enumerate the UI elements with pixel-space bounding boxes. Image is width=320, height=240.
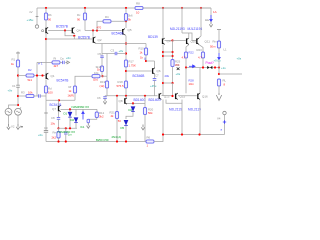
wire Q3 collector down to Q1 (45, 34, 47, 73)
junction x=58.5 y=128.3 (57, 127, 59, 129)
wire column x=117 (116, 96, 118, 112)
junction stub x=126 (125, 140, 127, 142)
junction source top (17, 104, 19, 106)
svg-text:D5: D5 (121, 126, 125, 130)
svg-text:BC557B: BC557B (56, 25, 68, 29)
wire staple link (166, 100, 182, 104)
ground (V1) (16, 124, 19, 129)
transistor Q4 (PNP mirror right) (72, 27, 75, 33)
wire to D2 branch (75, 109, 77, 115)
svg-text:Q1: Q1 (51, 74, 55, 78)
resistor R17 (124, 60, 127, 67)
wire Q7 emitter down (58, 112, 60, 117)
wire source link y=105 (9, 105, 19, 108)
wire corner x=96-97 (96, 109, 98, 112)
emitter circle Q3 (42, 30, 44, 32)
capacitor C5 (101, 56, 103, 57)
wire column x=126 to Q8 (125, 96, 127, 98)
svg-text:C8: C8 (51, 116, 55, 120)
resistor R22 (184, 52, 187, 58)
wire VAS bus y=30.5 (85, 30, 122, 32)
wire R13 bottom (74, 93, 76, 100)
wire R2 row (18, 75, 26, 77)
resistor R18 (124, 81, 127, 88)
junction x=172.5 y=40.5 (171, 39, 173, 41)
svg-text:Q8: Q8 (119, 99, 123, 103)
wire Q6 emitter down (154, 74, 156, 79)
wire x=172.5 to Q15 base (172, 83, 174, 96)
svg-text:BD140G: BD140G (149, 98, 162, 102)
junction Q1 base (41, 74, 43, 76)
svg-text:+15u: +15u (27, 18, 34, 22)
junction stub x=58.5 (57, 140, 59, 142)
resistor R3 (26, 94, 34, 97)
resistor R6 (146, 140, 154, 143)
wire row y=21.3 (97, 21, 126, 30)
junction x=172.5 y=52 (171, 51, 173, 53)
transistor Q16 (197, 93, 200, 99)
capacitor C9 polarity mark (44, 112, 48, 114)
wire to Q5 collector (125, 21, 127, 29)
junction x=117 (116, 95, 118, 97)
wire stub rail to corner x=163 (154, 135, 163, 142)
svg-text:+1s: +1s (221, 66, 226, 70)
junction x=163 y=52 (162, 51, 164, 53)
junction x=203 y=67.5 (202, 66, 204, 68)
current arrow (output) (218, 53, 220, 60)
junction top rail x=163 (162, 7, 164, 9)
svg-text:C1: C1 (12, 84, 16, 88)
capacitor C6 (104, 97, 106, 98)
svg-text:C9: C9 (44, 126, 48, 130)
junction stub x=117 (116, 140, 118, 142)
wire top rail left drop to supply terminal (36, 8, 38, 25)
svg-text:Re: Re (53, 131, 57, 135)
svg-text:+0s: +0s (38, 133, 43, 137)
svg-text:▸ 1: ▸ 1 (39, 61, 43, 65)
resistor R14 (92, 75, 100, 78)
wire Q11 emitter (199, 45, 203, 52)
resistor R8 (series in rail) (135, 6, 143, 9)
transistor Q2 (93, 37, 96, 43)
svg-text:Q4: Q4 (77, 29, 81, 33)
svg-text:575.5: 575.5 (117, 84, 124, 88)
svg-text:(1k): (1k) (100, 84, 105, 88)
input arrowhead (65, 61, 69, 64)
wire C5 lead (101, 44, 103, 57)
junction x=18 y=75.5 (17, 74, 19, 76)
svg-text:Ib1: Ib1 (81, 125, 85, 129)
junction bus x=93 (92, 29, 94, 31)
junction rail x=182 (181, 133, 183, 135)
svg-text:C6: C6 (97, 96, 101, 100)
svg-text:5k1: 5k1 (28, 78, 33, 82)
wire y=43.5 to R10 (126, 43, 146, 45)
transistor Q8 (bias servo) (124, 98, 127, 104)
svg-text:10k: 10k (94, 71, 99, 75)
svg-text:10u: 10u (51, 122, 56, 126)
junction x=133 y=103.4 (132, 102, 134, 104)
plus mark V4 (223, 120, 226, 123)
svg-text:Q2: Q2 (98, 38, 102, 42)
wire R3 row (18, 95, 26, 97)
wire y=74 right (219, 73, 242, 75)
junction jog (73, 35, 75, 37)
svg-text:R2: R2 (28, 68, 32, 72)
svg-text:4.7: 4.7 (198, 56, 202, 60)
wire input row y=62.4 (37, 61, 52, 63)
junction y=76.2 (101, 75, 103, 77)
current arrow on output wire (189, 65, 195, 68)
wire x=154.5 to base row (154, 80, 156, 96)
junction x=126 y=71 (125, 70, 127, 72)
svg-text:Rb: Rb (48, 13, 52, 17)
wire corner x=46 y=100.3 (46, 99, 75, 101)
capacitor C7 (154, 79, 156, 80)
wire x=182 to bottom rail (181, 103, 183, 134)
wire Q2 collector up (92, 31, 94, 37)
svg-text:10k: 10k (28, 91, 33, 95)
svg-text:D2: D2 (71, 118, 75, 122)
resistor R15 (44, 13, 47, 20)
transistor Q13 (159, 93, 162, 99)
wire jog to Q11 (182, 33, 196, 41)
wire x=163 to bottom rail (162, 100, 164, 135)
svg-text:Q5: Q5 (128, 28, 132, 32)
svg-text:50k: 50k (148, 111, 153, 115)
resistor R20 (143, 108, 146, 115)
resistor R12 (95, 112, 98, 118)
junction x=146 y=61 (145, 60, 147, 62)
wire tie y=83 (163, 82, 173, 84)
resistor R25 (171, 60, 174, 67)
svg-text:BD139: BD139 (148, 35, 158, 39)
svg-text:2k2: 2k2 (52, 136, 57, 140)
wire x=107 corner down (106, 54, 108, 77)
resistor R10 (144, 48, 147, 55)
svg-text:BC546B: BC546B (112, 32, 124, 36)
transistor Q6 (152, 68, 155, 74)
svg-text:Ca: Ca (60, 57, 64, 61)
wire V2 to ground (8, 115, 10, 124)
svg-text:Rc: Rc (77, 13, 81, 17)
junction bus x=97 (96, 29, 98, 31)
junction x=46 y=39 (45, 38, 47, 40)
svg-text:50: 50 (118, 119, 122, 123)
wire bias row y=109.4 (61, 108, 98, 110)
svg-text:MJL2119: MJL2119 (188, 108, 201, 112)
transistor Q3 (PNP mirror left) (45, 27, 48, 33)
wire base row y=95.8 (105, 95, 158, 97)
wire x=163 down (162, 44, 164, 96)
wire tie y=52 (163, 51, 173, 53)
wire feedback corner x=75 (75, 76, 92, 86)
current probe arrow Im (210, 15, 212, 22)
diode D5 (124, 120, 128, 125)
svg-text:1k(R): 1k(R) (68, 93, 74, 97)
wire bottom rail y=134.5 (163, 134, 225, 136)
junction x=163 y=56 (162, 55, 164, 57)
svg-text:R23: R23 (197, 48, 203, 52)
transistor Q15 (175, 93, 178, 99)
wire Q10 emitter (186, 45, 189, 52)
resistor R2 (26, 74, 34, 77)
wire y=76.2 join (100, 75, 107, 77)
junction stub x=65.8 (65, 140, 67, 142)
voltage source V1 (right) (15, 108, 22, 115)
junction x=163 y=83 (162, 82, 164, 84)
junction rail x=199.5 (198, 133, 200, 135)
wire +V top rail (37, 7, 211, 9)
svg-text:nV: nV (29, 10, 33, 14)
wire y=40.5 (165, 40, 173, 42)
wire x=200 to bottom rail (199, 100, 201, 135)
wire Q10 collector stub (188, 33, 190, 38)
transistor Q10 (output NPN) (186, 38, 189, 44)
svg-text:+0v: +0v (8, 88, 13, 92)
svg-text:4.7: 4.7 (182, 56, 186, 60)
wire V1 to ground (17, 115, 19, 124)
junction x=126 y=53.5 (125, 52, 127, 54)
wire Q2 emitter bus y=43.5 (95, 43, 126, 45)
wire to load node (218, 68, 220, 75)
svg-text:Ri: Ri (54, 57, 57, 61)
ground near D4 area (141, 125, 144, 130)
capacitor C4 mark (177, 68, 180, 71)
resistor R1 (16, 60, 19, 67)
junction x=219 y=67.5 (218, 66, 220, 68)
wire column x=37 (36, 62, 38, 96)
junction x=186 y=67.5 (185, 66, 187, 68)
wire x=154.5 down to Q6 (154, 61, 156, 68)
wire base tie jog down (65, 31, 74, 36)
svg-text:10: 10 (136, 11, 140, 15)
wire Q8 to diode column (127, 102, 145, 104)
polarity tick on supply column (36, 16, 39, 18)
svg-text:470: 470 (97, 25, 102, 29)
transistor Q11 (output) (196, 38, 199, 44)
resistor R16 (83, 13, 86, 20)
resistor R21 (115, 112, 118, 119)
ground (C6) (103, 99, 106, 104)
svg-text:NJM4560 XX: NJM4560 XX (58, 130, 76, 134)
svg-text:Q6: Q6 (157, 69, 161, 73)
wire column x=126 from rail (125, 8, 127, 14)
svg-text:V2: V2 (11, 125, 15, 129)
svg-text:C7: C7 (155, 74, 159, 78)
svg-text:R6: R6 (147, 136, 151, 140)
svg-text:BC546B: BC546B (133, 74, 145, 78)
junction x=59 y=100.3 (58, 99, 60, 101)
svg-text:D4: D4 (129, 108, 133, 112)
wire output node y=67.5 (186, 67, 219, 69)
wire corner into R10 (145, 44, 147, 49)
wire column x=163 (162, 8, 164, 38)
wire C9 column x=46 (45, 100, 47, 131)
transistor Q5 (VAS) (122, 29, 125, 35)
transistor Q9 (driver) (162, 38, 165, 44)
ground (load) (216, 93, 221, 101)
junction base tie (64, 29, 66, 31)
svg-text:Q10: Q10 (191, 39, 197, 43)
wire column x=145 (144, 96, 146, 108)
junction x=219 y=74 (218, 73, 220, 75)
resistor R7 (100, 66, 103, 72)
wire tie y=56 (163, 55, 173, 57)
wire R12 to C10 (88, 118, 97, 120)
wire D4 to D5 jog (126, 112, 133, 119)
svg-text:L1: L1 (224, 48, 228, 52)
wire column x=201 (200, 8, 202, 36)
svg-text:D1: D1 (64, 112, 68, 116)
diode D1 (68, 112, 72, 117)
svg-text:Q9: Q9 (167, 39, 171, 43)
svg-text:BC547B: BC547B (57, 79, 69, 83)
diode D4 (131, 107, 135, 112)
junction x=70 y=128.3 (69, 127, 71, 129)
capacitor C1 (input DC block) (16, 85, 19, 87)
wire rail right corner down (210, 8, 212, 21)
junction x=145 (144, 95, 146, 97)
junction top rail x=201 (200, 7, 202, 9)
svg-text:2N4 (A): 2N4 (A) (112, 135, 122, 139)
wire column x=18 (17, 67, 19, 105)
svg-text:C4: C4 (176, 63, 180, 67)
wire Q7 collector up (58, 100, 60, 105)
current arrow on R10 (144, 58, 146, 61)
wire Q13 to Q15 (162, 95, 173, 97)
terminal V4 (223, 111, 226, 114)
ground (top right) (209, 22, 212, 27)
current source I1 (arrow up) (82, 112, 84, 120)
wire y=39 to Q2 base (46, 38, 92, 40)
svg-text:R8: R8 (136, 2, 140, 6)
capacitor Ca (63, 61, 64, 63)
wire column x=126 mid (125, 36, 127, 60)
svg-text:in: in (21, 125, 24, 129)
wire x=219 top tick (217, 29, 221, 31)
junction x=172.5 y=56 (171, 55, 173, 57)
svg-text:B250 C50: B250 C50 (96, 138, 109, 142)
wire column x=46 rail to mirror (45, 8, 47, 13)
capacitor Ce (65, 133, 67, 134)
capacitor C2 (39, 95, 40, 97)
svg-text:10m: 10m (189, 82, 195, 86)
svg-text:90: 90 (48, 18, 52, 22)
resistor R23 (201, 52, 204, 58)
svg-text:R1: R1 (12, 58, 16, 62)
junction x=126 y=21.3 (125, 20, 127, 22)
wire Ce top (65, 128, 67, 132)
wire Q11 collector stub (199, 36, 201, 38)
svg-text:MJL2119: MJL2119 (169, 108, 182, 112)
wire Q1 emitter to R9 (45, 79, 47, 86)
junction x=70 (69, 108, 71, 110)
svg-text:50m: 50m (210, 45, 216, 49)
resistor Re (57, 132, 60, 139)
junction top rail x=85 (84, 7, 86, 9)
svg-text:3k2: 3k2 (99, 115, 104, 119)
voltage source V2 (left) (5, 108, 12, 115)
capacitor C8 (58, 118, 60, 119)
junction Q15 base (171, 95, 173, 97)
anti-parallel diodes on output wire (207, 66, 212, 69)
svg-text:+0s: +0s (176, 72, 181, 76)
svg-text:1.75K: 1.75K (129, 64, 136, 68)
wire to D1 (69, 109, 71, 112)
wire column x=85 (84, 8, 86, 13)
node V+ supply terminal (35, 25, 38, 28)
svg-text:+0.0u: +0.0u (214, 59, 222, 63)
svg-text:1A: 1A (213, 10, 217, 14)
wire x=18 top tick (16, 52, 20, 54)
capacitor C3 (116, 53, 117, 55)
transistor Q1 (46, 73, 49, 79)
wire to D4 (132, 103, 134, 105)
svg-text:20k: 20k (165, 74, 170, 78)
junction x=172.5 y=83 (171, 82, 173, 84)
wire x=200 output to Q16 (199, 68, 201, 94)
svg-text:(1k): (1k) (93, 78, 98, 82)
resistor R19 (105, 81, 108, 88)
wire tie y=128.3 (59, 127, 78, 129)
capacitor C9 (44, 130, 48, 132)
svg-text:Q13: Q13 (164, 94, 170, 98)
junction top rail x=46 (45, 7, 47, 9)
junction top rail x=126 (125, 7, 127, 9)
svg-text:+0v: +0v (119, 49, 124, 53)
svg-text:C5: C5 (98, 52, 102, 56)
svg-text:MJL21194: MJL21194 (188, 27, 203, 31)
svg-text:R4: R4 (105, 15, 109, 19)
wire to I1 (82, 109, 84, 112)
svg-text:Q11: Q11 (205, 39, 211, 43)
junction x=126 (125, 95, 127, 97)
resistor RL (load) (217, 79, 220, 86)
junction top rail x=182 (181, 7, 183, 9)
ground (V2) (7, 124, 10, 129)
diode D2 (74, 118, 78, 123)
svg-text:BD140G: BD140G (134, 98, 147, 102)
svg-text:Q15: Q15 (180, 94, 186, 98)
wire V4 branch (224, 115, 226, 135)
wire stub rail y=141.5 (46, 141, 146, 143)
wire Q15 to Q16 (178, 95, 197, 97)
junction x=126 y=43.5 (125, 42, 127, 44)
junction x=37 y=75.5 (36, 74, 38, 76)
svg-text:MJL21193: MJL21193 (170, 27, 185, 31)
wire mirror base tie y=30.5 (48, 30, 72, 32)
svg-text:NJM4560 XX: NJM4560 XX (72, 105, 90, 109)
svg-text:C3: C3 (111, 49, 115, 53)
wire y=53.5 (102, 53, 126, 55)
resistor R9 (44, 86, 47, 93)
svg-text:4k7: 4k7 (54, 64, 59, 68)
svg-text:100: 100 (48, 91, 53, 95)
ground (C10) (87, 123, 90, 128)
svg-text:BC557B: BC557B (78, 36, 90, 40)
svg-text:Q7: Q7 (52, 107, 56, 111)
resistor R24 (217, 41, 220, 48)
svg-text:+0v: +0v (66, 56, 71, 60)
resistor R5a (124, 14, 127, 21)
wire column x=182 (181, 8, 183, 33)
wire x=186 output node to Q15 (185, 68, 187, 94)
svg-text:Q16: Q16 (202, 94, 208, 98)
transistor Q7 (bias) (58, 105, 61, 111)
wire R9 bottom (45, 93, 47, 100)
wire y=71 to Q6 base (126, 70, 152, 72)
